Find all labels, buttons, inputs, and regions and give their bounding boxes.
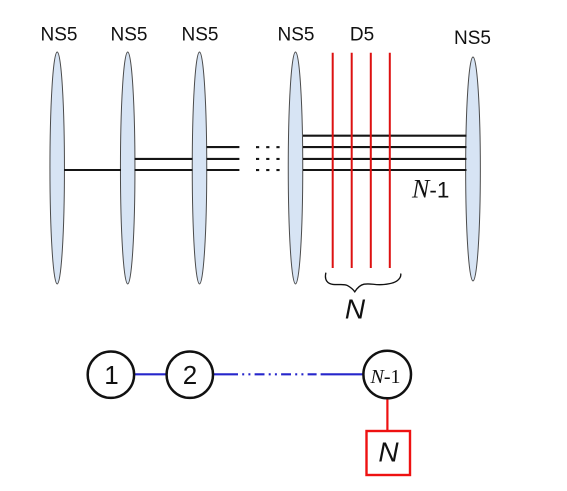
NS5 brane 4 (ellipse): [288, 52, 303, 284]
label N-1 (number of D4 branes): [411, 175, 449, 204]
quiver edge N-1 to flavor node (red vertical): [386, 396, 388, 431]
svg-text:N-1: N-1: [370, 366, 401, 388]
label NS5 #3: [182, 25, 219, 46]
svg-text:NS5: NS5: [41, 25, 78, 46]
label NS5 #6: [454, 28, 491, 49]
quiver gauge node 1 (circle): [88, 352, 134, 398]
D5 brane 3 (red vertical line): [370, 53, 372, 268]
quiver gauge node 2 (circle): [167, 352, 213, 398]
flavor node label N: [378, 437, 399, 468]
svg-text:1: 1: [104, 360, 118, 390]
NS5 brane 6 (right ellipse): [466, 57, 481, 281]
svg-text:NS5: NS5: [182, 25, 219, 46]
svg-text:2: 2: [183, 360, 197, 390]
ellipsis dots (continuation of D4 branes): [256, 146, 280, 171]
quiver edge 1-2 (blue solid): [133, 373, 168, 375]
node N-1 label: [370, 366, 401, 388]
node 2 label: [183, 360, 197, 390]
svg-text:N: N: [378, 437, 399, 468]
NS5 brane 1 (ellipse): [50, 52, 64, 284]
D4 brane segments between NS5#2 and NS5#3: [135, 159, 193, 170]
D5 brane 2 (red vertical line): [351, 53, 353, 268]
label NS5 #1: [41, 25, 78, 46]
quiver edge 2..N-1 (blue dash-dotted): [212, 373, 365, 375]
D4 brane segments (N-1 of them) between NS5#4 and NS5#6: [303, 136, 467, 170]
D5 brane 1 (red vertical line): [332, 53, 334, 268]
D4 brane stubs right of NS5#3: [207, 147, 240, 170]
svg-text:NS5: NS5: [111, 25, 148, 46]
label NS5 #4: [278, 25, 315, 46]
label D5: [350, 25, 374, 46]
svg-text:NS5: NS5: [278, 25, 315, 46]
label N (number of D5 branes): [345, 294, 366, 325]
quiver gauge node N-1 (circle): [363, 351, 411, 399]
quiver flavor node N (red square): [367, 431, 411, 475]
node 1 label: [104, 360, 118, 390]
svg-text:D5: D5: [350, 25, 374, 46]
NS5 brane 3 (ellipse): [192, 52, 207, 284]
svg-text:N: N: [345, 294, 366, 325]
NS5 brane 2 (ellipse): [120, 52, 135, 284]
D4 brane segment between NS5#1 and NS5#2: [64, 169, 121, 171]
label NS5 #2: [111, 25, 148, 46]
D5 brane 4 (red vertical line): [389, 53, 391, 268]
svg-text:N-1: N-1: [411, 175, 449, 204]
svg-text:NS5: NS5: [454, 28, 491, 49]
under-brace below D5 branes: [325, 273, 400, 292]
